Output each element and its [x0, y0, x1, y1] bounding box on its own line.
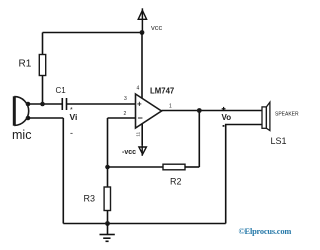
- svg-text:-vcc: -vcc: [122, 149, 136, 156]
- wire speaker bottom return: [226, 125, 262, 224]
- resistor R1: [39, 55, 45, 76]
- wire R1 upper lead: [42, 33, 44, 55]
- node output junction: [197, 108, 202, 113]
- wire feedback node to R2: [108, 166, 164, 168]
- resistor R3: [104, 187, 110, 211]
- wire left vertical drop: [62, 118, 64, 224]
- svg-text:2: 2: [124, 111, 127, 117]
- node feedback junction: [105, 165, 110, 170]
- svg-text:SPEAKER: SPEAKER: [275, 112, 299, 118]
- capacitor C1: [62, 98, 66, 110]
- wire bottom rail: [63, 223, 225, 225]
- wire R1 lower lead: [42, 76, 44, 105]
- svg-text:-: -: [70, 128, 73, 138]
- svg-text:vcc: vcc: [151, 23, 163, 32]
- vcc arrow symbol: [138, 8, 146, 32]
- wire top rail from R1 to VCC node: [43, 32, 143, 34]
- svg-text:Vi: Vi: [70, 112, 78, 122]
- svg-text:C1: C1: [56, 86, 67, 95]
- svg-text:4: 4: [137, 86, 140, 92]
- svg-text:R2: R2: [170, 177, 182, 187]
- svg-text:1: 1: [169, 104, 172, 110]
- svg-text:LM747: LM747: [150, 87, 174, 96]
- wire R2 to output riser: [185, 166, 199, 168]
- svg-text:R3: R3: [84, 194, 96, 204]
- svg-text:−: −: [138, 113, 143, 123]
- wire output riser vertical: [198, 111, 200, 168]
- node R1 / input junction: [40, 102, 45, 107]
- svg-text:©Elprocus.com: ©Elprocus.com: [239, 227, 292, 236]
- wire C1 to op-amp pin3: [67, 103, 136, 105]
- op-amp U1 LM747: [136, 94, 162, 128]
- svg-text:11: 11: [136, 131, 141, 136]
- node mic bottom terminal: [26, 116, 31, 121]
- wire mic to C1: [28, 103, 62, 105]
- svg-text:mic: mic: [12, 128, 31, 142]
- svg-text:3: 3: [124, 96, 127, 102]
- wire output to speaker: [162, 110, 263, 112]
- svg-text:+: +: [137, 100, 142, 109]
- -vcc arrow symbol: [139, 145, 147, 156]
- node vcc junction: [140, 30, 145, 35]
- wire op-amp pin11 supply: [141, 124, 143, 145]
- svg-text:R1: R1: [19, 59, 32, 70]
- node ground junction: [105, 221, 110, 226]
- wire op-amp pin2 to feedback node: [108, 117, 136, 119]
- wire feedback vertical: [107, 118, 109, 187]
- resistor R2: [163, 164, 185, 170]
- wire op-amp pin4 supply: [141, 33, 143, 99]
- ground: [100, 224, 115, 242]
- wire mic bottom to left drop: [28, 117, 63, 119]
- microphone MIC: [14, 96, 28, 125]
- wire R3 lower lead: [107, 211, 109, 224]
- marker plus on output wire: [222, 107, 226, 111]
- marker dot below Vo: [223, 125, 225, 127]
- speaker LS1: [262, 102, 270, 130]
- svg-text:Vo: Vo: [222, 113, 232, 122]
- svg-text:LS1: LS1: [271, 136, 287, 146]
- node mic top terminal: [26, 102, 31, 107]
